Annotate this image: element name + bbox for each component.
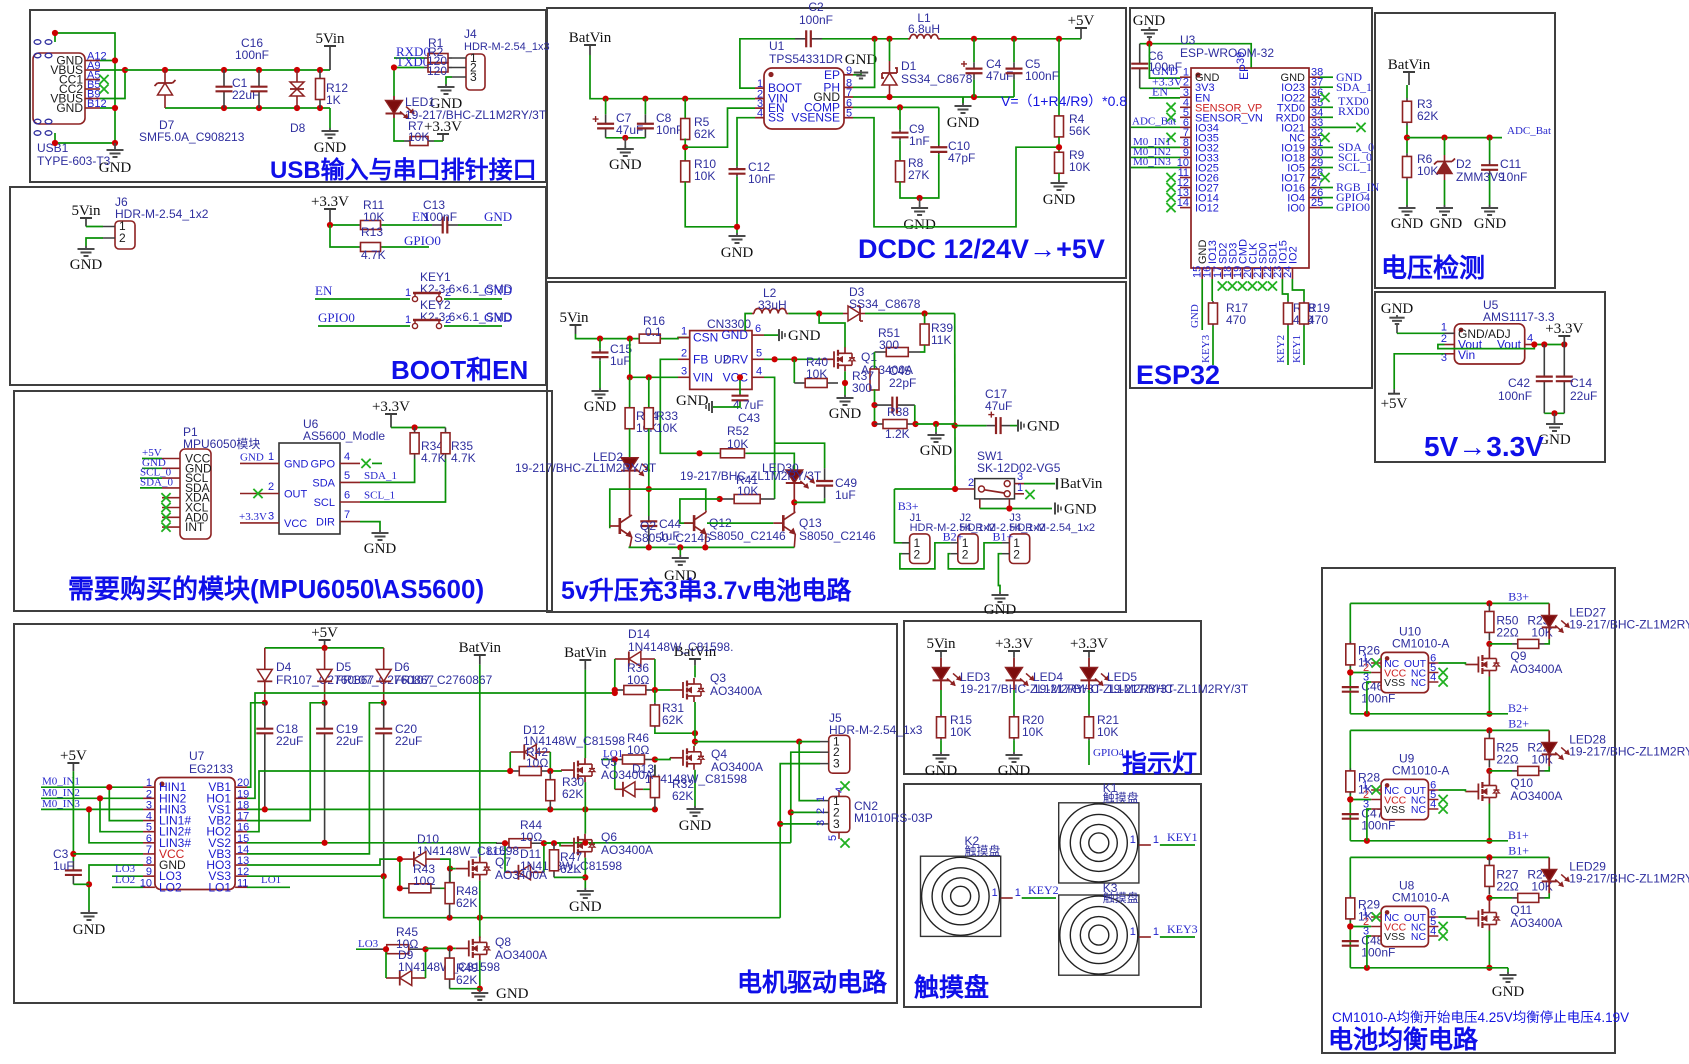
capacitor C18 22uF bbox=[264, 703, 266, 729]
svg-text:U3: U3 bbox=[1180, 33, 1196, 47]
wire J3.2 to gnd bbox=[998, 554, 1002, 592]
wire D13 parallel bbox=[614, 760, 616, 790]
transistor Q8 AO3400A bbox=[456, 947, 469, 949]
svg-text:USB输入与串口排针接口: USB输入与串口排针接口 bbox=[270, 156, 537, 184]
net label EN (pin3) bbox=[1149, 97, 1180, 99]
svg-text:300: 300 bbox=[852, 381, 872, 395]
svg-text:5Vin: 5Vin bbox=[559, 310, 589, 326]
svg-text:1: 1 bbox=[1153, 834, 1159, 846]
capacitor C6 100nF bbox=[1139, 44, 1141, 64]
svg-text:GPIO0: GPIO0 bbox=[404, 233, 441, 248]
svg-text:4: 4 bbox=[756, 365, 762, 377]
svg-text:LO2: LO2 bbox=[115, 874, 135, 886]
net label +3.3V (pin2) bbox=[1140, 87, 1180, 89]
resistor R17 470 bbox=[1211, 279, 1213, 301]
resistor R23 10K bbox=[1489, 643, 1512, 645]
svg-text:6: 6 bbox=[344, 490, 350, 502]
net label GND (C13) bbox=[458, 224, 502, 226]
capacitor C12 10nF bbox=[737, 118, 755, 167]
ground C42/C14 bbox=[1544, 412, 1564, 414]
svg-text:5v升压充3串3.7v电池电路: 5v升压充3串3.7v电池电路 bbox=[561, 576, 852, 605]
wire Q13 base link bbox=[707, 522, 773, 524]
svg-text:120: 120 bbox=[427, 64, 447, 78]
svg-text:100nF: 100nF bbox=[1025, 69, 1059, 83]
svg-text:电池均衡电路: 电池均衡电路 bbox=[1328, 1025, 1479, 1054]
svg-text:1uF: 1uF bbox=[610, 354, 631, 368]
capacitor C43 4.7uF bbox=[739, 377, 741, 394]
svg-text:D5: D5 bbox=[336, 660, 352, 674]
transistor Q5 AO3400A bbox=[561, 769, 574, 771]
ground C4/C5 bbox=[962, 97, 964, 103]
ground flag C17 bbox=[1010, 425, 1018, 427]
capacitor C1 22uF bbox=[223, 70, 225, 87]
section frame 5V to 3.3V bbox=[1375, 292, 1605, 462]
svg-text:触摸盘: 触摸盘 bbox=[965, 843, 1001, 858]
svg-text:+5V: +5V bbox=[1381, 396, 1408, 412]
section frame battery balance bbox=[1322, 568, 1615, 1053]
resistor R2 120 bbox=[424, 67, 428, 69]
svg-text:触摸盘: 触摸盘 bbox=[1103, 790, 1139, 805]
svg-text:10K: 10K bbox=[1069, 160, 1090, 174]
diode D7 SMF5.0A bbox=[164, 70, 166, 83]
svg-text:电压检测: 电压检测 bbox=[1381, 253, 1485, 283]
ground under USB bbox=[114, 143, 116, 147]
svg-text:1: 1 bbox=[681, 326, 687, 338]
svg-text:4: 4 bbox=[344, 451, 350, 463]
resistor R36 10ohm bbox=[615, 689, 624, 691]
svg-text:BatVin: BatVin bbox=[1388, 57, 1431, 73]
transistor Q11 AO3400A bbox=[1488, 898, 1490, 907]
capacitor C42 100nF bbox=[1543, 345, 1545, 377]
svg-text:VCC: VCC bbox=[723, 370, 749, 384]
svg-text:电机驱动电路: 电机驱动电路 bbox=[737, 969, 888, 997]
svg-text:4: 4 bbox=[1430, 799, 1436, 811]
wire R38 node / gnd bbox=[916, 423, 955, 425]
svg-text:SDA_1: SDA_1 bbox=[364, 470, 397, 482]
svg-text:LO3: LO3 bbox=[358, 938, 379, 950]
svg-text:300: 300 bbox=[879, 338, 899, 352]
svg-text:SMF5.0A_C908213: SMF5.0A_C908213 bbox=[139, 130, 245, 144]
svg-text:4: 4 bbox=[1430, 926, 1436, 938]
svg-text:62K: 62K bbox=[672, 789, 693, 803]
svg-text:INT: INT bbox=[185, 520, 205, 534]
capacitor C4 47uF polarized bbox=[973, 39, 975, 63]
resistor R49 62K bbox=[449, 948, 451, 958]
svg-text:5: 5 bbox=[344, 470, 350, 482]
svg-text:+3.3V: +3.3V bbox=[311, 194, 349, 210]
svg-text:GND: GND bbox=[240, 451, 264, 463]
svg-text:22Ω: 22Ω bbox=[1496, 752, 1518, 766]
wire LED2 to Q2 bbox=[629, 470, 631, 515]
LED LED3 bbox=[940, 658, 942, 668]
svg-text:SDA_1: SDA_1 bbox=[1336, 80, 1372, 94]
wire LED30 to Q13 bbox=[793, 483, 795, 512]
svg-text:D2: D2 bbox=[1456, 157, 1472, 171]
diode D2 ZMM3V9 bbox=[1444, 138, 1446, 155]
svg-text:5V→3.3V: 5V→3.3V bbox=[1424, 431, 1544, 462]
svg-text:B2+: B2+ bbox=[943, 530, 964, 544]
svg-text:C11: C11 bbox=[1500, 157, 1521, 171]
ground balance bottom bbox=[1507, 968, 1509, 972]
svg-text:Q7: Q7 bbox=[495, 855, 511, 869]
svg-text:KEY3: KEY3 bbox=[1167, 922, 1198, 936]
diode D5 FR107 bbox=[324, 648, 326, 669]
resistor R11 10K bbox=[359, 224, 361, 226]
wire Q9 source bbox=[1488, 677, 1490, 714]
wire EN divider node bbox=[684, 139, 686, 162]
net label GPIO4 bbox=[1088, 740, 1090, 765]
wire Q5 source to VS row bbox=[584, 782, 586, 809]
wire pin3 Vin to +5V bbox=[1394, 354, 1444, 389]
svg-text:10Ω: 10Ω bbox=[520, 830, 542, 844]
svg-text:B1+: B1+ bbox=[1508, 828, 1529, 842]
svg-text:SCL_1: SCL_1 bbox=[364, 490, 395, 502]
svg-text:GND: GND bbox=[947, 115, 980, 131]
svg-text:GND: GND bbox=[314, 140, 347, 156]
resistor R22 10K bbox=[1489, 770, 1512, 772]
svg-text:+3.3V: +3.3V bbox=[1070, 636, 1108, 652]
svg-text:GPO: GPO bbox=[311, 458, 336, 470]
svg-text:LO2: LO2 bbox=[159, 880, 182, 894]
svg-text:27K: 27K bbox=[908, 168, 929, 182]
section frame motor driver bbox=[14, 624, 897, 1003]
svg-text:M0_IN3: M0_IN3 bbox=[1133, 156, 1171, 168]
wire ADC_Bat node bbox=[1406, 126, 1408, 154]
svg-text:100nF: 100nF bbox=[799, 13, 833, 27]
touch pad K2 bbox=[921, 856, 1001, 936]
ground D2 bbox=[1444, 180, 1446, 205]
svg-text:GND: GND bbox=[1027, 419, 1060, 435]
svg-text:62K: 62K bbox=[694, 127, 715, 141]
resistor R40 10K bbox=[793, 359, 795, 383]
connector CN2 M1010RS bbox=[829, 796, 850, 832]
svg-text:AO3400A: AO3400A bbox=[495, 868, 547, 882]
resistor R43 10ohm bbox=[400, 887, 409, 889]
power flag 5Vin bbox=[329, 46, 331, 70]
resistor R46 10ohm bbox=[612, 759, 622, 761]
wire output vertical bbox=[954, 314, 956, 490]
wire B3+ node bbox=[894, 488, 955, 490]
wire diode anode rail bbox=[265, 647, 384, 649]
svg-text:需要购买的模块(MPU6050\AS5600): 需要购买的模块(MPU6050\AS5600) bbox=[68, 574, 484, 604]
resistor R42 10ohm bbox=[510, 770, 519, 772]
resistor R15 10K bbox=[940, 690, 942, 715]
resistor R13 4.7K bbox=[359, 246, 361, 248]
svg-text:470: 470 bbox=[1308, 313, 1328, 327]
svg-text:1K: 1K bbox=[326, 93, 341, 107]
section frame battery charger bbox=[547, 282, 1126, 612]
svg-text:B1+: B1+ bbox=[1508, 843, 1529, 857]
inductor L2 33uH bbox=[745, 314, 752, 332]
svg-text:R52: R52 bbox=[727, 424, 749, 438]
resistor R35 4.7K bbox=[445, 428, 447, 433]
svg-text:22uF: 22uF bbox=[1570, 389, 1597, 403]
section frame BOOT/EN bbox=[10, 187, 546, 385]
wire GND rail right bbox=[853, 96, 1014, 98]
svg-text:SS34_C8678: SS34_C8678 bbox=[901, 72, 973, 86]
wire Q11 source bbox=[1488, 931, 1490, 968]
svg-text:GND: GND bbox=[1133, 13, 1166, 29]
ground rail bottom bbox=[329, 108, 331, 128]
svg-text:5: 5 bbox=[756, 347, 762, 359]
svg-text:VIN: VIN bbox=[693, 370, 713, 384]
svg-text:62K: 62K bbox=[662, 713, 683, 727]
capacitor C46 100nF bbox=[1342, 686, 1359, 688]
transistor Q4 AO3400A bbox=[670, 757, 683, 759]
ground J6 pin2 bbox=[86, 238, 103, 246]
wire R46 to Q4 gate bbox=[655, 758, 670, 760]
svg-text:DCDC 12/24V→+5V: DCDC 12/24V→+5V bbox=[858, 234, 1105, 264]
wire +3.3V to R11/R13 bbox=[330, 224, 359, 226]
svg-text:14: 14 bbox=[1177, 197, 1189, 209]
svg-text:3: 3 bbox=[833, 817, 840, 831]
svg-text:SDA: SDA bbox=[312, 477, 335, 489]
resistor R3 62K bbox=[1406, 85, 1408, 98]
svg-text:1: 1 bbox=[992, 887, 998, 899]
wire BatVin rail bbox=[590, 55, 755, 99]
svg-text:GPIO0: GPIO0 bbox=[318, 310, 355, 325]
svg-text:1: 1 bbox=[1017, 482, 1023, 494]
wire GND rail bbox=[1350, 967, 1508, 969]
power flag +5V (diode rail) bbox=[324, 640, 326, 648]
wire C10/R8 gnd bbox=[900, 154, 939, 198]
resistor R34 4.7K bbox=[414, 428, 416, 433]
svg-text:47pF: 47pF bbox=[948, 151, 975, 165]
resistor R41 10K bbox=[720, 498, 734, 500]
wire VS3 row bbox=[247, 875, 384, 877]
wire R31 bottom to Q3 source bbox=[655, 728, 695, 733]
wire R33/C44 column bbox=[648, 429, 650, 517]
svg-text:GND: GND bbox=[484, 283, 512, 298]
svg-text:J4: J4 bbox=[464, 27, 477, 41]
wire HO2 bbox=[247, 771, 510, 832]
svg-text:4.7K: 4.7K bbox=[361, 248, 386, 262]
bottom pin15 GND stub bbox=[1201, 279, 1203, 330]
svg-text:GND: GND bbox=[829, 406, 862, 422]
wire Q8 source to gnd bbox=[479, 960, 481, 988]
wire DRV to Q1 gate bbox=[764, 358, 821, 360]
svg-text:GND: GND bbox=[1064, 502, 1097, 518]
wire J1.2 to J2.1 (B2+) bbox=[900, 543, 951, 569]
wire COMP network bbox=[853, 106, 939, 108]
svg-text:S8050_C2146: S8050_C2146 bbox=[799, 529, 876, 543]
svg-text:GND: GND bbox=[364, 541, 397, 557]
ground R15 bbox=[940, 740, 942, 752]
net label ADC_Bat bbox=[1131, 126, 1180, 128]
svg-text:FB: FB bbox=[693, 352, 708, 366]
svg-text:GND: GND bbox=[1430, 216, 1463, 232]
svg-text:S8050_C2146: S8050_C2146 bbox=[634, 531, 711, 545]
svg-text:U7: U7 bbox=[189, 749, 205, 763]
svg-text:NC: NC bbox=[1411, 677, 1427, 689]
svg-text:GND: GND bbox=[679, 818, 712, 834]
svg-text:39: 39 bbox=[1235, 52, 1247, 64]
capacitor C17 47uF polarized bbox=[955, 425, 987, 427]
power flag +3.3V (U5) bbox=[1563, 336, 1565, 345]
wire VB3 bbox=[247, 703, 384, 854]
svg-text:EP: EP bbox=[1237, 64, 1251, 80]
ground R9 bbox=[1058, 173, 1060, 180]
svg-text:10K: 10K bbox=[737, 484, 758, 498]
svg-text:B1+: B1+ bbox=[993, 530, 1014, 544]
svg-text:3: 3 bbox=[268, 511, 274, 523]
svg-text:D1: D1 bbox=[901, 59, 917, 73]
resistor R37 300 bbox=[874, 352, 876, 370]
svg-text:2: 2 bbox=[914, 548, 921, 562]
svg-text:SS: SS bbox=[768, 111, 784, 125]
resistor R48 62K bbox=[449, 869, 451, 883]
wire HO3 bbox=[247, 859, 400, 865]
wire L2 to D3 bbox=[788, 313, 843, 315]
svg-text:+3.3V: +3.3V bbox=[424, 119, 462, 135]
svg-text:TPS54331DR: TPS54331DR bbox=[769, 52, 843, 66]
wire Q7 source bbox=[479, 881, 481, 938]
ground flag C43 bbox=[712, 402, 740, 407]
svg-text:GPIO4: GPIO4 bbox=[1093, 747, 1125, 759]
svg-text:+5V: +5V bbox=[1068, 13, 1095, 29]
svg-text:62K: 62K bbox=[562, 787, 583, 801]
svg-text:LED1: LED1 bbox=[405, 95, 435, 109]
ground R20 bbox=[1013, 740, 1015, 752]
wire R4/R9 node bbox=[1058, 137, 1060, 153]
wire VCC tap bbox=[1350, 799, 1371, 801]
svg-text:1: 1 bbox=[268, 451, 274, 463]
svg-text:AO3400A: AO3400A bbox=[710, 684, 762, 698]
svg-text:10nF: 10nF bbox=[1500, 170, 1527, 184]
svg-text:3: 3 bbox=[833, 757, 840, 771]
svg-text:GND: GND bbox=[1043, 192, 1076, 208]
svg-text:19-217/BHC-ZL1M2RY/3T: 19-217/BHC-ZL1M2RY/3T bbox=[1569, 744, 1689, 758]
net label SDA_0 bbox=[140, 487, 162, 489]
svg-text:1K: 1K bbox=[1358, 782, 1373, 796]
svg-text:10K: 10K bbox=[1097, 725, 1118, 739]
resistor R10 10K bbox=[684, 160, 686, 162]
touch pad K1 bbox=[1059, 803, 1139, 883]
svg-text:2: 2 bbox=[1441, 333, 1447, 345]
diode D12 1N4148W bbox=[510, 751, 524, 753]
svg-text:VSS: VSS bbox=[1384, 931, 1405, 943]
section frame indicator LEDs bbox=[904, 621, 1201, 774]
transistor Q9 AO3400A bbox=[1488, 644, 1490, 653]
svg-text:SCL: SCL bbox=[314, 497, 335, 509]
wire VS1 row bbox=[247, 808, 655, 810]
wire D14/R36 nodes bbox=[614, 659, 616, 693]
svg-text:AO3400A: AO3400A bbox=[1510, 789, 1562, 803]
wire VBUS rail bbox=[125, 69, 330, 71]
SW1 bottom pins to gnd bbox=[979, 499, 981, 509]
transistor Q10 AO3400A bbox=[1488, 771, 1490, 780]
transistor Q7 AO3400A bbox=[456, 868, 469, 870]
svg-text:KEY1: KEY1 bbox=[1291, 335, 1303, 363]
svg-text:4.7uF: 4.7uF bbox=[733, 398, 764, 412]
svg-text:19-217/BHC-ZL1M2RY/3T: 19-217/BHC-ZL1M2RY/3T bbox=[1569, 617, 1689, 631]
wire phase B to connectors bbox=[791, 752, 820, 843]
no-connect bottom pins bbox=[1218, 281, 1227, 290]
svg-text:C43: C43 bbox=[738, 411, 760, 425]
wire R45 to Q8 gate bbox=[426, 947, 456, 949]
svg-text:GND: GND bbox=[484, 310, 512, 325]
section frame modules bbox=[14, 391, 552, 611]
svg-text:指示灯: 指示灯 bbox=[1122, 750, 1197, 778]
net label KEY1 bbox=[1303, 326, 1305, 365]
capacitor C19 22uF bbox=[324, 703, 326, 729]
wire +3.3V pullup rail bbox=[391, 427, 446, 429]
resistor R24 10K bbox=[1489, 897, 1512, 899]
svg-text:2: 2 bbox=[681, 347, 687, 359]
wire Q2 base link bbox=[610, 489, 706, 528]
svg-text:4: 4 bbox=[757, 108, 763, 120]
touch pad K3 bbox=[1059, 895, 1139, 975]
wire R37 bottom node bbox=[874, 389, 876, 424]
svg-text:2: 2 bbox=[962, 548, 969, 562]
svg-text:VCC: VCC bbox=[284, 518, 307, 530]
capacitor C11 10nF bbox=[1489, 138, 1491, 160]
svg-text:10K: 10K bbox=[727, 437, 748, 451]
net label GND (pin1) bbox=[1149, 44, 1180, 78]
svg-text:U1: U1 bbox=[769, 39, 785, 53]
resistor R5 62K bbox=[684, 99, 686, 120]
svg-text:4.7K: 4.7K bbox=[451, 451, 476, 465]
section frame touch pads bbox=[904, 784, 1201, 1007]
LED LED28 bbox=[1548, 730, 1550, 742]
resistor R25 22R bbox=[1488, 730, 1490, 738]
LED LED4 bbox=[1013, 658, 1015, 668]
svg-text:BatVin: BatVin bbox=[564, 645, 607, 661]
capacitor C16 100nF bbox=[258, 70, 260, 87]
svg-text:+3.3V: +3.3V bbox=[239, 511, 267, 523]
svg-text:2: 2 bbox=[968, 477, 974, 489]
section frame DCDC bbox=[547, 8, 1126, 278]
wire GND pin8/C3 bbox=[89, 865, 143, 910]
transistor Q6 AO3400A bbox=[561, 845, 574, 847]
wire Q6 source/R47 to gnd bbox=[584, 858, 586, 888]
svg-text:AO3400A: AO3400A bbox=[495, 948, 547, 962]
svg-text:GND: GND bbox=[984, 602, 1017, 618]
svg-text:FR107_C2760867: FR107_C2760867 bbox=[394, 673, 492, 687]
svg-text:EN: EN bbox=[1152, 85, 1168, 99]
svg-text:GND: GND bbox=[788, 328, 821, 344]
svg-text:0.1: 0.1 bbox=[645, 325, 662, 339]
svg-text:IO12: IO12 bbox=[1195, 203, 1219, 215]
diode D13 1N4148W bbox=[615, 788, 623, 790]
svg-text:KEY2: KEY2 bbox=[1275, 335, 1287, 363]
svg-text:ESP32: ESP32 bbox=[1136, 360, 1220, 390]
resistor R27 22R bbox=[1488, 857, 1490, 865]
svg-text:100nF: 100nF bbox=[1498, 389, 1532, 403]
resistor R6 10K bbox=[1406, 153, 1408, 156]
svg-text:M1010RS-03P: M1010RS-03P bbox=[854, 811, 933, 825]
svg-text:EN: EN bbox=[315, 283, 333, 298]
svg-text:1: 1 bbox=[1441, 322, 1447, 334]
transistor Q3 AO3400A bbox=[670, 689, 683, 691]
svg-text:GND: GND bbox=[1189, 304, 1201, 328]
resistor R31 62K bbox=[654, 690, 656, 703]
capacitor C13 100nF bbox=[432, 224, 443, 226]
capacitor C3 1uF bbox=[72, 861, 74, 870]
ground flag near SW1 bbox=[1054, 503, 1056, 515]
wire HO1 (long) bbox=[247, 693, 615, 798]
wire SW1 pin2 bbox=[955, 488, 975, 490]
ground C7/C8 bbox=[606, 137, 646, 139]
svg-text:ADC_Bat: ADC_Bat bbox=[1507, 125, 1551, 137]
svg-text:AO3400A: AO3400A bbox=[1510, 916, 1562, 930]
capacitor C7 47uF polarized bbox=[605, 99, 607, 115]
ground R6 bbox=[1406, 181, 1408, 206]
net label GPIO0 bbox=[382, 246, 429, 248]
svg-text:Q10: Q10 bbox=[1510, 776, 1533, 790]
ground J4 pin3 bbox=[446, 77, 452, 84]
svg-text:+3.3V: +3.3V bbox=[1545, 321, 1583, 337]
